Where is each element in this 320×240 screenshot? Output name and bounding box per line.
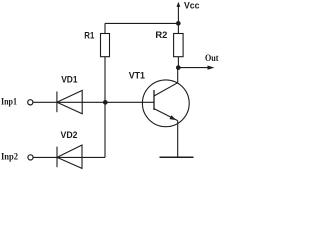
svg-text:R1: R1 bbox=[84, 31, 94, 41]
svg-text:R2: R2 bbox=[155, 30, 167, 40]
svg-text:Inp1: Inp1 bbox=[1, 98, 17, 108]
svg-text:Vcc: Vcc bbox=[184, 1, 200, 11]
svg-text:Out: Out bbox=[205, 54, 219, 64]
svg-text:Inp2: Inp2 bbox=[1, 153, 18, 163]
svg-text:VD1: VD1 bbox=[61, 75, 77, 85]
svg-text:VT1: VT1 bbox=[129, 71, 145, 81]
svg-text:VD2: VD2 bbox=[61, 130, 78, 140]
